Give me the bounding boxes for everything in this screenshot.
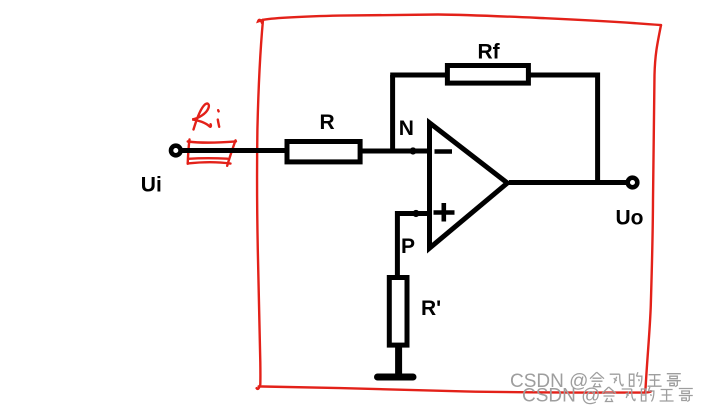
wire: resistor R' down to ground (395, 345, 402, 375)
red annotation box (hand-drawn) (257, 15, 661, 393)
red annotation resistor sketch over input wire (188, 140, 236, 166)
wire: op-amp output to output terminal (509, 180, 629, 185)
svg-text:P: P (401, 235, 415, 258)
red annotation Ri label (handwritten) (192, 104, 219, 130)
node N junction dot (409, 147, 416, 154)
wire: node P to op-amp non-inverting input (397, 211, 430, 216)
input terminal circle (Ui) (171, 146, 181, 156)
wire: feedback vertical from node N up (390, 75, 395, 153)
resistor R' (389, 278, 407, 346)
op-amp inverting input minus sign (435, 149, 453, 154)
wire: input terminal to resistor R (182, 148, 288, 153)
op-amp U1 (430, 123, 508, 248)
node P junction dot (412, 210, 419, 217)
svg-text:CSDN @: CSDN @ (522, 386, 600, 407)
ground (378, 374, 414, 381)
watermark CSDN line 1 (510, 371, 681, 392)
watermark CSDN line 2 (522, 386, 693, 407)
resistor R (287, 142, 360, 162)
svg-text:Rf: Rf (478, 41, 501, 64)
svg-text:Uo: Uo (616, 207, 644, 230)
svg-text:R': R' (421, 297, 441, 320)
svg-text:R: R (320, 111, 335, 134)
wire: feedback top horizontal to Rf (390, 73, 448, 78)
wire: resistor R to op-amp inverting input (360, 149, 430, 154)
svg-text:N: N (399, 117, 414, 140)
wire: Rf to output vertical drop (528, 75, 600, 183)
svg-text:Ui: Ui (141, 174, 162, 197)
resistor Rf (447, 66, 528, 84)
output terminal circle (Uo) (628, 178, 638, 188)
wire: node P down to resistor R' (395, 211, 400, 278)
op-amp non-inverting input plus sign (434, 203, 455, 222)
